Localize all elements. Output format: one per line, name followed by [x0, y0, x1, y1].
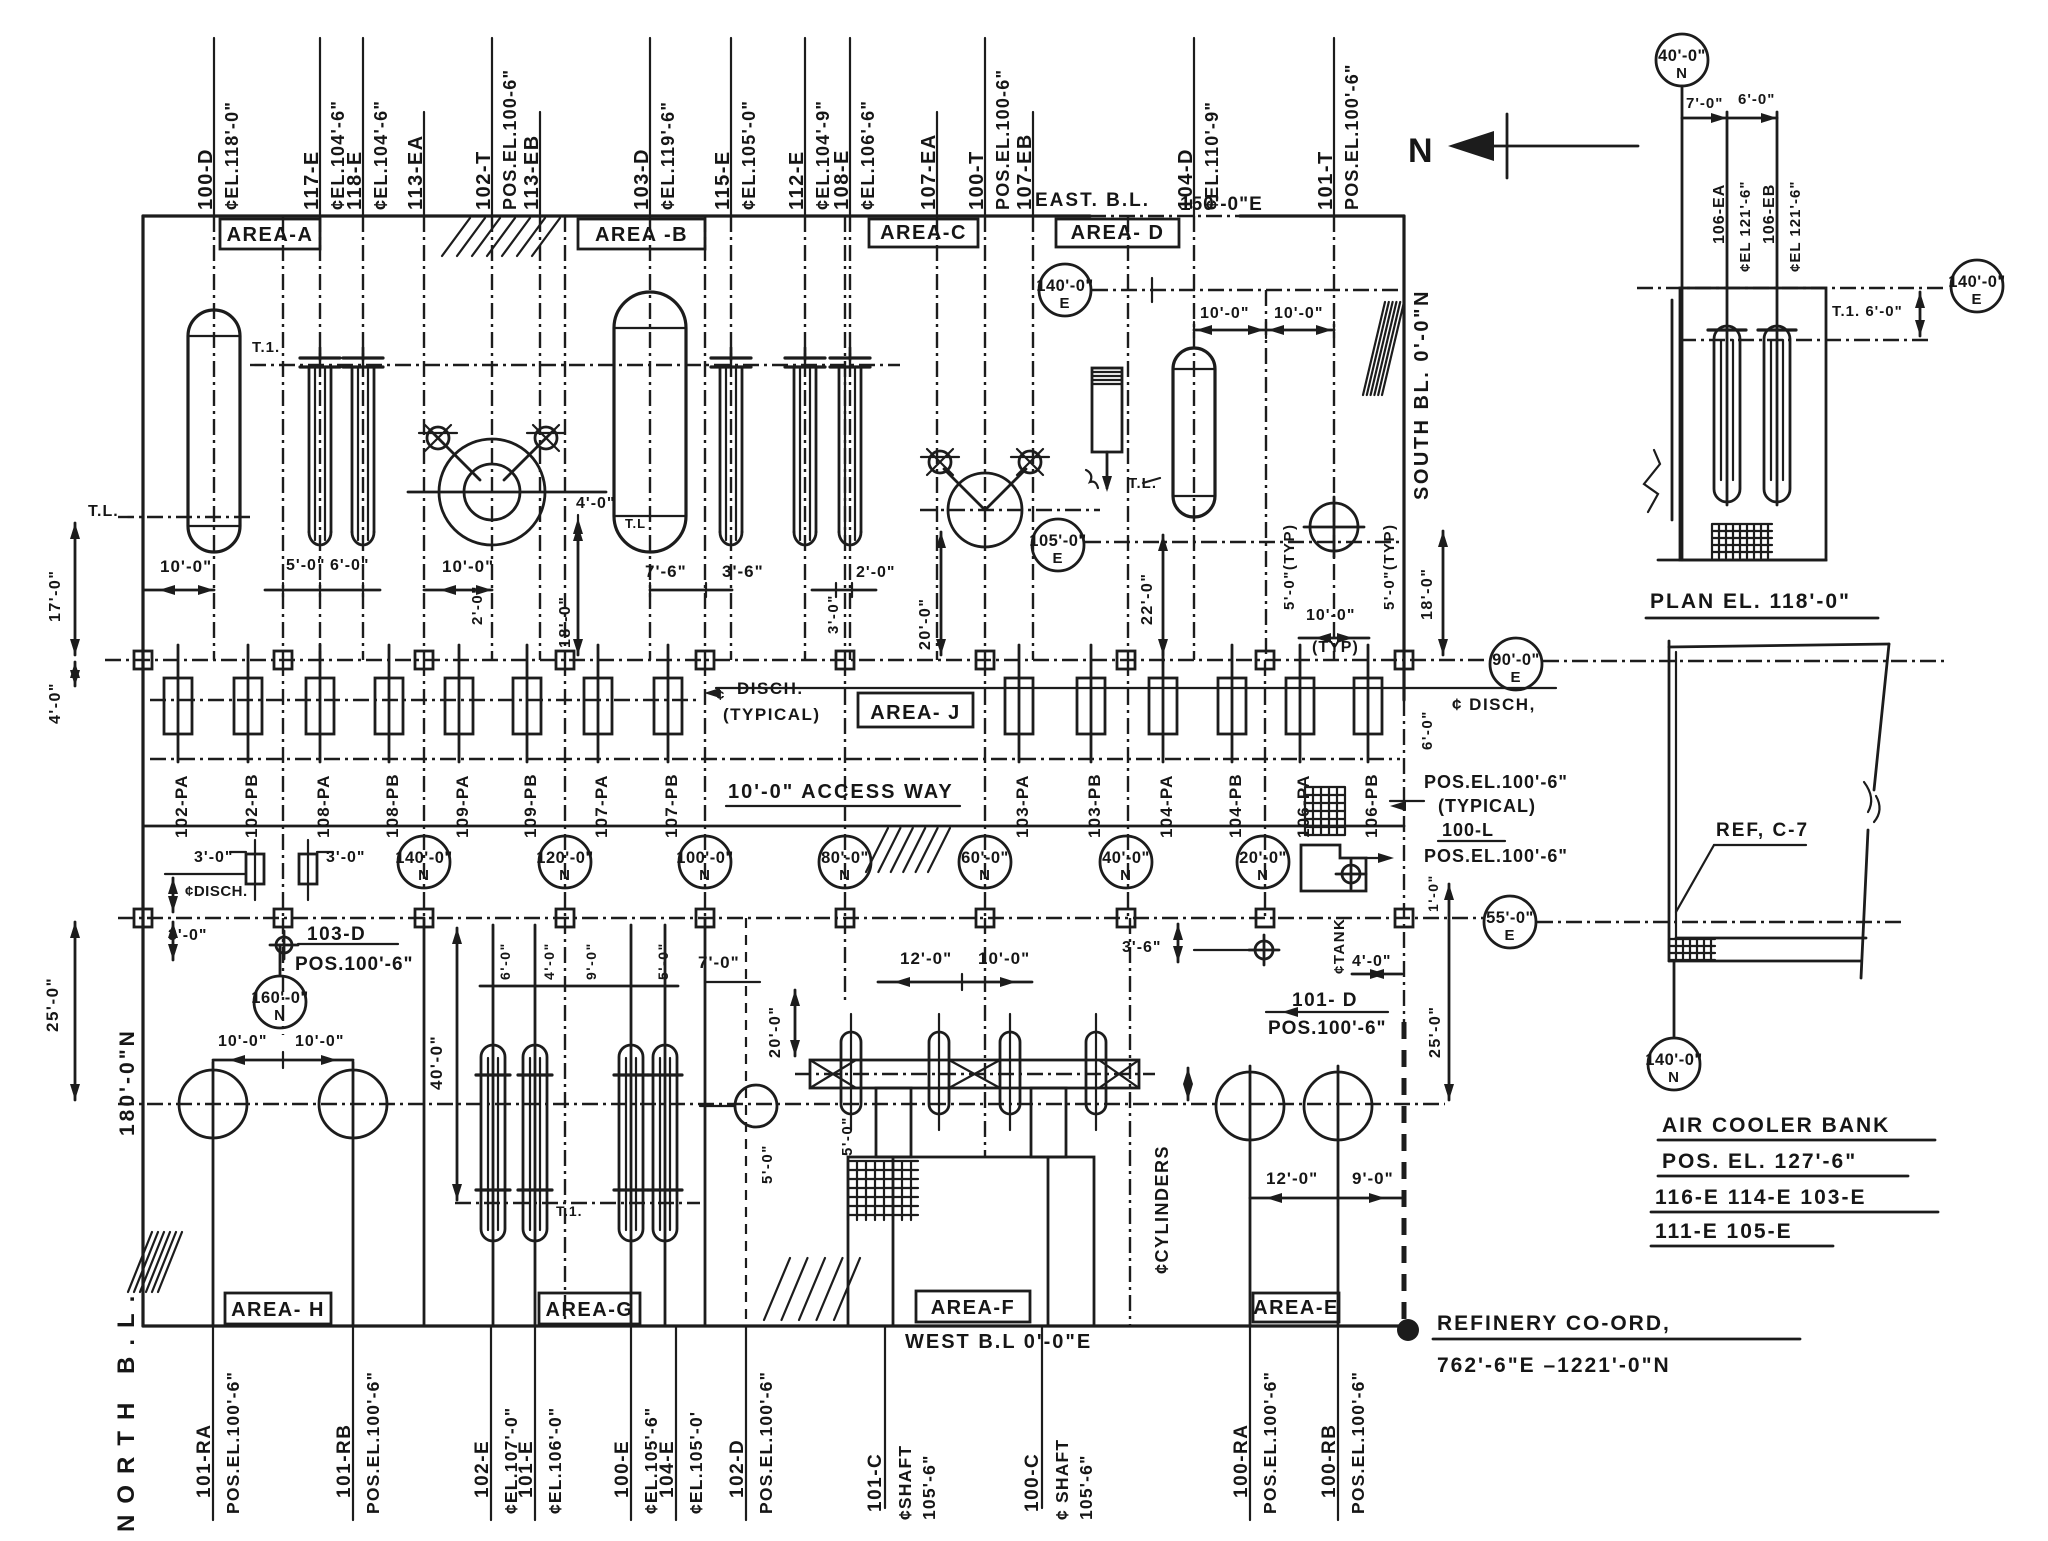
north arrow — [1455, 145, 1638, 148]
valve at 102-T left — [427, 427, 449, 449]
coordinate circle 105'-0 E — [1032, 519, 1084, 571]
exchanger 112-E — [804, 348, 807, 360]
tank 101-D outline — [1301, 845, 1366, 891]
svg-text:762'-6"E –1221'-0"N: 762'-6"E –1221'-0"N — [1437, 1354, 1671, 1377]
svg-text:9'-0": 9'-0" — [583, 942, 599, 980]
svg-text:10'-0": 10'-0" — [160, 557, 212, 576]
svg-text:20'-0": 20'-0" — [767, 1006, 784, 1058]
svg-text:POS.EL.100'-6": POS.EL.100'-6" — [756, 1371, 776, 1514]
node circle 20-0 col — [1255, 941, 1273, 959]
svg-text:AREA-C: AREA-C — [880, 222, 967, 244]
svg-text:3'-0": 3'-0" — [326, 849, 366, 866]
plot boundary north B.L. (left edge) — [141, 216, 144, 1326]
equipment label line 117-E — [319, 38, 321, 216]
svg-text:T.1.: T.1. — [556, 1203, 583, 1219]
svg-text:N: N — [559, 867, 571, 884]
centerline col 1266 (AREA-D) — [1265, 290, 1267, 660]
svg-text:106-PA: 106-PA — [1294, 774, 1313, 838]
hatch top boundary — [442, 218, 470, 256]
grid column centerlines mid band — [282, 660, 284, 918]
svg-text:102-E: 102-E — [472, 1440, 493, 1498]
plan label 106-EB — [1776, 112, 1779, 505]
svg-text:22'-0": 22'-0" — [1139, 573, 1156, 625]
svg-text:12'-0": 12'-0" — [1266, 1169, 1318, 1188]
svg-text:80'-0": 80'-0" — [821, 849, 869, 867]
dim 7'-6 — [650, 589, 706, 592]
svg-text:POS.EL.100'-6": POS.EL.100'-6" — [1348, 1371, 1368, 1514]
svg-text:40'-0": 40'-0" — [1658, 47, 1706, 65]
svg-text:102-T: 102-T — [473, 150, 495, 210]
svg-text:AREA-E: AREA-E — [1253, 1297, 1339, 1319]
bottom label 101-RB — [352, 1326, 354, 1520]
dim 20'-0 rot — [940, 532, 943, 655]
svg-text:25'-0": 25'-0" — [1427, 1006, 1444, 1058]
svg-text:¢EL.104'-9": ¢EL.104'-9" — [813, 100, 833, 210]
svg-text:90'-0": 90'-0" — [1492, 651, 1540, 669]
svg-text:106-EB: 106-EB — [1761, 184, 1778, 244]
bottom label 100-E — [630, 1326, 632, 1520]
svg-text:100-RA: 100-RA — [1231, 1424, 1252, 1498]
area box AREA-C — [869, 219, 978, 247]
tank 101-RB — [319, 1070, 387, 1138]
svg-text:(TYP): (TYP) — [1312, 639, 1359, 656]
svg-text:6'-0": 6'-0" — [1738, 91, 1775, 108]
svg-text:102-D: 102-D — [727, 1439, 748, 1498]
vessel 100-D — [188, 310, 240, 552]
svg-text:117-E: 117-E — [301, 150, 323, 210]
plan break mark — [1644, 450, 1660, 512]
area box AREA-G — [539, 1293, 640, 1324]
svg-text:10'-0" ACCESS WAY: 10'-0" ACCESS WAY — [728, 781, 954, 803]
vessel 103-D — [614, 292, 686, 552]
svg-text:105'-0": 105'-0" — [1029, 532, 1086, 550]
area box AREA- H — [225, 1293, 331, 1324]
svg-text:¢ SHAFT: ¢ SHAFT — [1052, 1439, 1072, 1520]
gridline 55'-0 E — [1484, 896, 1536, 948]
svg-text:4'-0": 4'-0" — [1352, 953, 1392, 970]
svg-text:N: N — [1668, 1069, 1680, 1086]
bottom label 102-E — [490, 1326, 492, 1520]
svg-text:N: N — [839, 867, 851, 884]
svg-text:10'-0": 10'-0" — [1200, 305, 1249, 322]
AREA-G tube dims — [480, 985, 678, 988]
svg-text:¢EL.105'-0': ¢EL.105'-0' — [686, 1411, 706, 1514]
svg-text:AREA-F: AREA-F — [931, 1297, 1016, 1319]
plot boundary east B.L. (top edge) — [143, 214, 1090, 217]
svg-text:115-E: 115-E — [712, 150, 734, 210]
area box AREA- D — [1056, 219, 1179, 247]
plot boundary south B.L. (right edge) — [1402, 216, 1405, 700]
dim 2'-0 at 108-E — [812, 589, 876, 592]
valve at 100-T right — [1019, 451, 1041, 473]
exchanger 102-E — [481, 1045, 505, 1241]
svg-text:100-D: 100-D — [195, 148, 217, 210]
tank 100-RA — [1216, 1072, 1284, 1140]
T.1. tangent line — [250, 364, 900, 366]
dim 25'-0 left — [74, 922, 77, 1100]
svg-text:POS. EL. 127'-6": POS. EL. 127'-6" — [1662, 1150, 1857, 1173]
svg-text:AREA-A: AREA-A — [227, 224, 314, 246]
tank 100-RB — [1304, 1072, 1372, 1140]
exchanger 117-E — [319, 348, 322, 360]
svg-text:113-EA: 113-EA — [405, 134, 427, 210]
pump 108-PA — [319, 645, 322, 762]
bottom label 101-E — [534, 1326, 536, 1520]
dim 18'-0 right — [1442, 531, 1445, 655]
svg-text:140'-0": 140'-0" — [1645, 1051, 1702, 1069]
pump 104-PB — [1231, 645, 1234, 762]
pump 107-PA — [597, 645, 600, 762]
svg-text:AREA- J: AREA- J — [870, 702, 961, 724]
svg-text:5'-0": 5'-0" — [839, 1116, 856, 1156]
svg-text:101-RB: 101-RB — [334, 1424, 355, 1498]
svg-text:POS.EL.100'-6": POS.EL.100'-6" — [363, 1371, 383, 1514]
svg-text:100'-0": 100'-0" — [676, 849, 733, 867]
pump 107-PB — [667, 645, 670, 762]
svg-text:¢TANK: ¢TANK — [1331, 918, 1348, 974]
coordinate circle 140'-0 E — [1039, 264, 1091, 316]
bottom label 100-RA — [1249, 1326, 1251, 1520]
svg-text:AREA- D: AREA- D — [1071, 222, 1165, 244]
plan dim 7'-0 6'-0 — [1682, 117, 1777, 120]
svg-text:100-C: 100-C — [1022, 1453, 1043, 1512]
svg-text:AREA -B: AREA -B — [595, 224, 688, 246]
svg-text:¢EL.104'-6": ¢EL.104'-6" — [371, 100, 391, 210]
svg-text:WEST B.L 0'-0"E: WEST B.L 0'-0"E — [905, 1331, 1092, 1353]
pump 104-PA — [1162, 645, 1165, 762]
svg-text:T.L.: T.L. — [88, 503, 119, 520]
svg-text:7'-0": 7'-0" — [1686, 95, 1723, 112]
svg-text:4'-0": 4'-0" — [576, 495, 616, 512]
svg-text:18'-0": 18'-0" — [557, 596, 574, 648]
svg-text:6'-0": 6'-0" — [1419, 710, 1436, 750]
svg-text:¢EL.106'-6": ¢EL.106'-6" — [858, 100, 878, 210]
dim 10'-0 10'-0 at 101-RA/RB — [213, 1059, 353, 1062]
pump 108-PB — [388, 645, 391, 762]
svg-text:POS.100'-6": POS.100'-6" — [1268, 1018, 1387, 1039]
plan tube B — [1764, 326, 1790, 502]
equipment label line 113-EB — [539, 112, 541, 216]
pump 102-PB — [247, 645, 250, 762]
svg-text:¢EL.105'-0": ¢EL.105'-0" — [739, 100, 759, 210]
dim 10'-0 at 100-D — [143, 589, 214, 592]
coordinate circle 80'-0&#34; N — [819, 836, 871, 888]
equipment label line 107-EB — [1032, 112, 1034, 216]
svg-text:120'-0": 120'-0" — [536, 849, 593, 867]
svg-text:101-C: 101-C — [865, 1453, 886, 1512]
svg-text:AREA- H: AREA- H — [231, 1299, 325, 1321]
pump 109-PA — [458, 645, 461, 762]
svg-text:¢EL 121'-6": ¢EL 121'-6" — [1737, 181, 1754, 272]
gridline 90'-0 E — [1490, 638, 1542, 690]
area box AREA-A — [220, 219, 320, 249]
svg-text:POS.EL.100-6": POS.EL.100-6" — [993, 69, 1013, 210]
dim 4'-0 pump offset — [74, 662, 77, 686]
hatch access way — [866, 828, 888, 872]
dim 17'-0 — [74, 523, 77, 655]
svg-text:¢SHAFT: ¢SHAFT — [895, 1445, 915, 1520]
svg-text:107-EB: 107-EB — [1014, 133, 1036, 210]
equipment label line 103-D — [649, 38, 651, 216]
svg-text:150'-0"E: 150'-0"E — [1180, 194, 1263, 215]
svg-text:5'-0"(TYP): 5'-0"(TYP) — [1281, 523, 1298, 610]
svg-text:¢ DISCH,: ¢ DISCH, — [1452, 695, 1536, 714]
svg-text:10'-0": 10'-0" — [1274, 305, 1323, 322]
svg-text:3'-6": 3'-6" — [1122, 939, 1162, 956]
svg-text:180'-0"N: 180'-0"N — [116, 1028, 139, 1136]
hatch right boundary — [1363, 302, 1385, 395]
svg-text:10'-0": 10'-0" — [295, 1033, 344, 1050]
dim 10'-0 (TYP) — [1299, 637, 1369, 640]
svg-text:(TYPICAL): (TYPICAL) — [1438, 796, 1536, 816]
svg-text:104-E: 104-E — [657, 1440, 678, 1498]
svg-text:105'-6": 105'-6" — [919, 1454, 939, 1520]
node circle col 101-T — [1310, 503, 1358, 551]
svg-text:DISCH.: DISCH. — [737, 679, 804, 698]
svg-text:4'-0": 4'-0" — [541, 942, 557, 980]
dim 12'-0 10'-0 AREA-F — [878, 981, 1032, 984]
equipment label line 115-E — [730, 38, 732, 216]
svg-text:107-PA: 107-PA — [592, 774, 611, 838]
svg-text:55'-0": 55'-0" — [1486, 909, 1534, 927]
plan tube A — [1714, 326, 1740, 502]
svg-text:118-E: 118-E — [344, 150, 366, 210]
svg-text:106-PB: 106-PB — [1362, 773, 1381, 838]
area box AREA-E — [1253, 1293, 1339, 1322]
valve at 100-T left — [929, 451, 951, 473]
svg-text:103-PB: 103-PB — [1085, 773, 1104, 838]
svg-text:7'-6": 7'-6" — [645, 562, 687, 581]
svg-text:NORTH B.L.: NORTH B.L. — [113, 1285, 140, 1532]
plan crosshatch — [1712, 524, 1772, 558]
crosshatch at 106 pumps — [1305, 787, 1345, 835]
svg-text:113-EB: 113-EB — [521, 134, 543, 210]
dim 10'-0 10'-0 at 104-D — [1194, 329, 1334, 332]
coordinate circle 160'-0 N — [254, 976, 306, 1028]
exchanger 118-E — [362, 348, 365, 360]
dim 3'-6 — [706, 589, 732, 592]
coordinate circle 140'-0 N (air cooler) — [1673, 961, 1676, 1037]
svg-text:100-T: 100-T — [966, 150, 988, 210]
pump 109-PB — [526, 645, 529, 762]
svg-text:N: N — [1120, 867, 1132, 884]
coordinate circle 20'-0&#34; N — [1237, 836, 1289, 888]
svg-text:N: N — [274, 1007, 286, 1024]
svg-text:105'-6": 105'-6" — [1076, 1454, 1096, 1520]
equipment label line 102-T — [491, 38, 493, 216]
plan gridline 140'-0 E — [1637, 287, 1944, 289]
svg-text:N: N — [1408, 132, 1434, 170]
equipment label line 108-E — [849, 38, 851, 216]
svg-text:N: N — [979, 867, 991, 884]
svg-text:¢DISCH.: ¢DISCH. — [185, 883, 248, 900]
svg-text:100-E: 100-E — [612, 1440, 633, 1498]
svg-text:107-PB: 107-PB — [662, 773, 681, 838]
bottom label 104-E — [675, 1326, 677, 1520]
svg-text:(TYPICAL): (TYPICAL) — [723, 705, 821, 724]
svg-text:140'-0": 140'-0" — [395, 849, 452, 867]
vessel 104-D — [1173, 348, 1215, 517]
svg-text:¢EL.118'-0": ¢EL.118'-0" — [222, 101, 242, 210]
svg-text:2'-0": 2'-0" — [469, 585, 486, 625]
svg-text:40'-0": 40'-0" — [427, 1035, 446, 1090]
svg-text:AIR COOLER BANK: AIR COOLER BANK — [1662, 1114, 1890, 1137]
svg-text:T.L: T.L — [625, 516, 646, 531]
T.1. line AREA-G — [455, 1202, 700, 1204]
svg-text:40'-0": 40'-0" — [1102, 849, 1150, 867]
svg-text:N: N — [1257, 867, 1269, 884]
pump 102-PA — [177, 645, 180, 762]
coordinate circle 40'-0 N (plan) — [1656, 34, 1708, 86]
support column 100-C — [1031, 1088, 1066, 1157]
valve at 102-T right — [535, 427, 557, 449]
svg-text:108-PB: 108-PB — [383, 773, 402, 838]
svg-text:10'-0": 10'-0" — [978, 949, 1030, 968]
cylinder 1 — [841, 1032, 861, 1114]
svg-text:140'-0": 140'-0" — [1036, 277, 1093, 295]
svg-text:111-E 105-E: 111-E 105-E — [1655, 1220, 1793, 1243]
dim 18'-0 rot — [577, 525, 580, 655]
vessel 101-T — [1092, 368, 1122, 452]
dim 20'-0 AREA-F — [794, 990, 797, 1056]
bottom label 101-RA — [212, 1326, 214, 1520]
svg-text:140'-0": 140'-0" — [1948, 273, 2005, 291]
svg-text:E: E — [1052, 550, 1063, 567]
gridline row (access way south centerline) — [118, 917, 1483, 919]
svg-text:¢EL.119'-6": ¢EL.119'-6" — [658, 101, 678, 210]
support column 101-C — [876, 1088, 911, 1157]
svg-text:104-PB: 104-PB — [1226, 773, 1245, 838]
air cooler bank outline — [1668, 641, 1671, 961]
tank 101-RA — [179, 1070, 247, 1138]
svg-text:POS.EL.100'-6": POS.EL.100'-6" — [1424, 772, 1568, 792]
air cooler crosshatch — [1669, 939, 1715, 960]
grid column centerlines upper band — [282, 216, 284, 660]
area box AREA -B — [578, 219, 705, 249]
svg-text:12'-0": 12'-0" — [900, 949, 952, 968]
bottom label 102-D — [745, 1326, 747, 1520]
plan T.1. line — [1680, 339, 1930, 341]
refinery coordinate monument dot — [1397, 1319, 1419, 1341]
svg-text:POS.EL.100'-6": POS.EL.100'-6" — [1260, 1371, 1280, 1514]
svg-text:4'-0": 4'-0" — [47, 682, 64, 724]
svg-text:5'-0": 5'-0" — [286, 557, 326, 574]
equipment label line 118-E — [362, 38, 364, 216]
svg-text:T.1. 6'-0": T.1. 6'-0" — [1832, 303, 1903, 320]
equipment label line 107-EA — [936, 112, 938, 216]
svg-text:103-D: 103-D — [631, 148, 653, 210]
svg-text:102-PB: 102-PB — [242, 773, 261, 838]
svg-text:109-PB: 109-PB — [521, 773, 540, 838]
svg-text:9'-0": 9'-0" — [1352, 1169, 1394, 1188]
svg-text:N: N — [418, 867, 430, 884]
note 103-D — [276, 937, 292, 953]
svg-text:POS.EL.100'-6": POS.EL.100'-6" — [223, 1371, 243, 1514]
crosshatch foundation — [848, 1161, 918, 1220]
svg-text:10'-0": 10'-0" — [1306, 607, 1355, 624]
svg-text:101- D: 101- D — [1292, 990, 1358, 1011]
svg-text:1'-0": 1'-0" — [1425, 874, 1441, 912]
access way north line — [143, 825, 1404, 828]
plan label 106-EA — [1726, 112, 1729, 505]
equipment label line 100-D — [213, 38, 215, 216]
svg-text:POS.100'-6": POS.100'-6" — [295, 954, 414, 975]
dim 25'-0 right — [1448, 884, 1451, 1100]
svg-text:101-T: 101-T — [1315, 150, 1337, 210]
discharge header line — [716, 687, 1404, 689]
svg-text:AREA-G: AREA-G — [546, 1299, 634, 1321]
exchanger 101-E — [523, 1045, 547, 1241]
pump 103-PB — [1090, 645, 1093, 762]
equipment centerlines upper band — [213, 216, 215, 660]
svg-text:¢EL 121'-6": ¢EL 121'-6" — [1787, 181, 1804, 272]
svg-text:REFINERY CO-ORD,: REFINERY CO-ORD, — [1437, 1312, 1671, 1335]
coordinate circle 60'-0&#34; N — [959, 836, 1011, 888]
svg-text:100-RB: 100-RB — [1319, 1424, 1340, 1498]
equipment label line 100-T — [984, 38, 986, 216]
svg-text:103-D: 103-D — [307, 924, 366, 945]
gridline row 100'-6 (pump row centerline) — [105, 659, 1489, 661]
svg-text:5'-0"(TYP): 5'-0"(TYP) — [1381, 523, 1398, 610]
svg-text:E: E — [1504, 927, 1515, 944]
svg-text:REF, C-7: REF, C-7 — [1716, 820, 1809, 841]
tank row centerline — [118, 1103, 1445, 1105]
svg-text:T.1.: T.1. — [252, 339, 280, 356]
svg-text:PLAN EL. 118'-0": PLAN EL. 118'-0" — [1650, 590, 1851, 613]
plot boundary west B.L. (bottom edge) — [143, 1324, 1404, 1327]
svg-text:107-EA: 107-EA — [918, 133, 940, 210]
svg-text:3'-0": 3'-0" — [825, 594, 842, 634]
svg-text:7'-0": 7'-0" — [698, 953, 740, 972]
bottom label 101-C — [884, 1326, 886, 1508]
grid column lines lower band — [423, 918, 426, 1326]
pump pair centerline dashes — [150, 699, 700, 701]
svg-text:25'-0": 25'-0" — [43, 977, 62, 1032]
svg-text:112-E: 112-E — [786, 150, 808, 210]
svg-text:109-PA: 109-PA — [453, 774, 472, 838]
column squares row 2 — [134, 909, 152, 927]
svg-text:POS.EL.100-6": POS.EL.100-6" — [500, 69, 520, 210]
svg-text:101-E: 101-E — [516, 1440, 537, 1498]
equipment label line 101-T — [1333, 38, 1335, 216]
exchanger 115-E — [730, 348, 733, 360]
svg-text:POS.EL.100'-6": POS.EL.100'-6" — [1342, 63, 1362, 210]
svg-text:POS.EL.100'-6": POS.EL.100'-6" — [1424, 846, 1568, 866]
exchanger 100-E — [619, 1045, 643, 1241]
dim 40'-0 AREA-G — [456, 928, 459, 1200]
svg-text:SOUTH BL. 0'-0"N: SOUTH BL. 0'-0"N — [1411, 289, 1433, 500]
dim 5'-0 6'-0 at 117/118-E — [265, 589, 380, 592]
compressor 100-T — [948, 473, 1022, 547]
svg-text:5'-0": 5'-0" — [655, 942, 671, 980]
svg-text:N: N — [1676, 65, 1688, 82]
coordinate circle 120'-0&#34; N — [539, 836, 591, 888]
svg-text:60'-0": 60'-0" — [961, 849, 1009, 867]
equipment label line 112-E — [804, 38, 806, 216]
dim 12'-0 9'-0 AREA-E — [1250, 1197, 1401, 1200]
foundation AREA-F — [848, 1157, 1094, 1326]
equipment label line 113-EA — [423, 112, 425, 216]
svg-text:E: E — [1059, 295, 1070, 312]
svg-text:100-L: 100-L — [1442, 820, 1494, 840]
bottom label 100-RB — [1337, 1326, 1339, 1520]
svg-text:3'-0": 3'-0" — [194, 849, 234, 866]
hatch AREA-F left — [764, 1258, 790, 1320]
svg-text:6'-0": 6'-0" — [497, 942, 513, 980]
svg-text:¢CYLINDERS: ¢CYLINDERS — [1152, 1145, 1172, 1274]
pump 106-PA — [1299, 645, 1302, 762]
hatch left boundary bottom — [128, 1232, 152, 1292]
